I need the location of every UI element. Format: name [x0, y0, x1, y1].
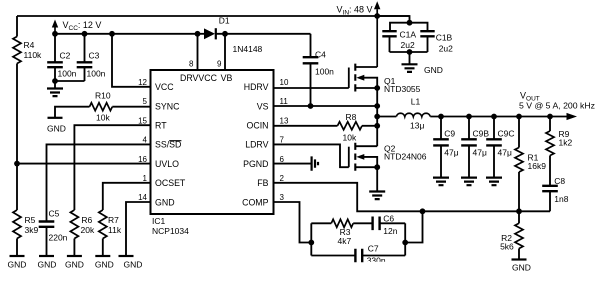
- svg-text:5: 5: [143, 97, 148, 106]
- ground T-bar under R5: [10, 255, 25, 257]
- svg-text:C5: C5: [49, 208, 60, 218]
- capacitor C8: [542, 186, 558, 191]
- svg-text:R10: R10: [95, 90, 111, 100]
- svg-text:16: 16: [138, 155, 147, 164]
- wire: SW to L1: [377, 116, 396, 118]
- node VS junction dot: [374, 103, 380, 109]
- node caps ground junction dot: [407, 49, 413, 55]
- svg-text:GND: GND: [8, 260, 27, 270]
- svg-text:100n: 100n: [87, 69, 106, 79]
- svg-text:2u2: 2u2: [439, 44, 453, 54]
- node OCIN junction dot: [374, 123, 380, 129]
- svg-text:14: 14: [138, 193, 147, 202]
- node C9C junction dot: [491, 114, 497, 120]
- svg-text:6: 6: [280, 155, 285, 164]
- node pin12 riser junction dot: [109, 31, 115, 37]
- wire: OCSET wire to R7: [103, 183, 151, 210]
- ground earth symbol under input caps: [402, 64, 418, 72]
- wire: VS wire: [274, 105, 378, 107]
- svg-text:47μ: 47μ: [444, 148, 458, 158]
- wire: VIN top rail from R4 top to C1A/C1B branch: [17, 15, 410, 17]
- svg-text:C9: C9: [444, 129, 455, 139]
- wire: left rail top segment: [16, 16, 18, 37]
- svg-text:GND: GND: [424, 65, 443, 75]
- capacitor C1A: [382, 31, 396, 36]
- wire: HDRV wire to Q1 gate: [274, 87, 349, 89]
- node D1 anode junction dot: [195, 31, 201, 37]
- node UVLO divider junction dot: [14, 161, 20, 167]
- wire: R5 bottom lead: [16, 239, 18, 257]
- svg-text:DRVVCC: DRVVCC: [180, 73, 218, 83]
- capacitor C4: [310, 34, 312, 57]
- svg-text:C3: C3: [89, 50, 100, 60]
- svg-text:OCSET: OCSET: [155, 178, 186, 188]
- diode D1 1N4148: [204, 28, 215, 39]
- svg-text:20k: 20k: [81, 225, 95, 235]
- node C4-VS junction dot: [308, 103, 314, 109]
- svg-text:PGND: PGND: [243, 159, 268, 169]
- resistor R5: [13, 210, 21, 239]
- ground earth symbol under C9: [433, 178, 449, 186]
- node C3 junction dot: [82, 31, 88, 37]
- wire: comp to FB link: [405, 211, 422, 242]
- svg-text:15: 15: [138, 116, 147, 125]
- op-amp U1: controller IC1 NCP1034 box with pin names and numbers: [151, 70, 274, 214]
- wire: C6 to right riser: [380, 222, 405, 224]
- svg-text:C6: C6: [383, 214, 394, 224]
- svg-text:1n8: 1n8: [554, 194, 568, 204]
- wire: D1 cathode wire to C4: [216, 33, 311, 35]
- wire: C2-C3 bottom join: [55, 80, 85, 82]
- svg-text:NTD3055: NTD3055: [384, 84, 421, 94]
- svg-text:47μ: 47μ: [473, 148, 487, 158]
- power VIN arrow (48 V input): [374, 1, 380, 16]
- svg-text:GND: GND: [47, 123, 66, 133]
- svg-text:13: 13: [280, 116, 289, 125]
- wire: R1 top lead: [518, 117, 520, 148]
- wire: pin 8 stub: [197, 34, 199, 70]
- svg-text:RT: RT: [155, 121, 167, 131]
- wire: UVLO wire to pin 16: [17, 163, 151, 165]
- wire: VOUT rail: [430, 116, 568, 118]
- wire: pin 9 stub: [224, 34, 226, 70]
- capacitor C5: [39, 222, 55, 227]
- node Q1 source junction dot: [374, 85, 380, 91]
- svg-text:10k: 10k: [343, 132, 357, 142]
- svg-text:GND: GND: [124, 260, 143, 270]
- node VIN junction dot: [374, 13, 380, 19]
- capacitor C1B: [420, 31, 434, 36]
- node comp right junction dot: [402, 240, 408, 246]
- svg-text:R4: R4: [24, 40, 35, 50]
- node C2 ground junction dot: [52, 78, 58, 84]
- wire: OCIN wire: [274, 125, 338, 127]
- ground earth symbol under C9C: [486, 178, 502, 186]
- wire: R7 bottom lead: [102, 239, 104, 257]
- svg-text:NCP1034: NCP1034: [152, 226, 189, 236]
- svg-text:D1: D1: [219, 16, 230, 26]
- svg-text:13μ: 13μ: [410, 121, 424, 131]
- wire: SYNC wire: [112, 106, 150, 108]
- svg-text:1: 1: [143, 174, 148, 183]
- node C9B junction dot: [466, 114, 472, 120]
- resistor R6: [70, 210, 78, 239]
- wire: R8 to SW node: [362, 125, 377, 127]
- resistor R1: [515, 148, 523, 172]
- wire: comp bottom branch left: [311, 255, 355, 257]
- svg-text:C1B: C1B: [436, 33, 453, 43]
- capacitor C9B: [468, 117, 470, 140]
- node C9 junction dot: [438, 114, 444, 120]
- svg-text:C7: C7: [368, 244, 379, 254]
- wire: VIN column down to Q1 drain: [376, 16, 378, 67]
- svg-text:47μ: 47μ: [498, 148, 512, 158]
- svg-text:12: 12: [138, 78, 147, 87]
- svg-text:100n: 100n: [315, 67, 334, 77]
- svg-text:C9B: C9B: [473, 129, 490, 139]
- wire: caps ground drop: [409, 52, 411, 64]
- wire: VCC rail to pin 12 VCC: [112, 34, 151, 87]
- ground T-bar under R6: [67, 255, 82, 257]
- transistor Q1 NTD3055: [348, 68, 350, 89]
- wire: R9 to C8: [549, 156, 551, 186]
- node input caps junction dot: [407, 20, 413, 26]
- svg-text:R5: R5: [25, 215, 36, 225]
- power VCC arrow (12 V supply): [52, 20, 58, 34]
- svg-text:GND: GND: [38, 260, 57, 270]
- wire: caps bottom join: [390, 51, 428, 53]
- svg-text:GND: GND: [512, 263, 531, 273]
- svg-text:4: 4: [143, 136, 148, 145]
- ground T-bar under R2: [512, 258, 527, 260]
- wire: caps top split: [390, 23, 428, 31]
- svg-text:COMP: COMP: [242, 197, 269, 207]
- svg-text:12n: 12n: [383, 226, 397, 236]
- svg-text:3k9: 3k9: [25, 225, 39, 235]
- svg-text:R7: R7: [108, 215, 119, 225]
- svg-text:4k7: 4k7: [338, 236, 352, 246]
- svg-text:C8: C8: [554, 176, 565, 186]
- wire: R10 left lead to ground: [55, 107, 90, 118]
- capacitor C7: [355, 249, 362, 263]
- ground earth symbol under Q2: [369, 192, 385, 200]
- svg-text:C4: C4: [315, 49, 326, 59]
- wire: R6 bottom lead: [73, 239, 75, 257]
- svg-text:IC1: IC1: [152, 216, 166, 226]
- svg-text:7: 7: [280, 136, 285, 145]
- wire: comp top branch left: [311, 222, 331, 224]
- wire: Q2 source to ground: [376, 167, 378, 191]
- wire: VCC rail: [55, 33, 198, 35]
- wire: C7 to right riser: [363, 255, 405, 257]
- svg-text:VS: VS: [257, 101, 269, 111]
- svg-text:SYNC: SYNC: [155, 101, 180, 111]
- wire: SS/SD wire to C5: [47, 144, 151, 221]
- svg-text:2: 2: [280, 174, 285, 183]
- svg-text:FB: FB: [257, 178, 268, 188]
- svg-text:HDRV: HDRV: [244, 82, 269, 92]
- svg-text:220n: 220n: [49, 233, 68, 243]
- inductor L1 13u: [396, 113, 430, 116]
- svg-text:C2: C2: [60, 50, 71, 60]
- node FB divider junction dot: [516, 208, 522, 214]
- ground T-bar under C5: [39, 255, 54, 257]
- svg-text:GND: GND: [155, 197, 175, 207]
- wire: RT wire to R6: [74, 125, 150, 210]
- wire: R3 to C6: [353, 222, 372, 224]
- resistor R3: [331, 219, 353, 227]
- node VB junction dot: [222, 31, 228, 37]
- ground earth symbol under C2: [54, 81, 56, 88]
- transistor Q2 NTD24N06: [348, 147, 350, 168]
- svg-text:GND: GND: [65, 260, 84, 270]
- svg-text:C1A: C1A: [400, 30, 417, 40]
- capacitor C3: [84, 34, 86, 63]
- node Q2 source junction dot: [374, 164, 380, 170]
- capacitor C9: [440, 117, 442, 140]
- wire: D1 anode wire: [198, 33, 205, 35]
- svg-text:9: 9: [217, 59, 222, 68]
- wire: comp network right riser: [404, 223, 406, 255]
- svg-text:3: 3: [280, 193, 285, 202]
- capacitor C9C: [493, 117, 495, 140]
- svg-text:C9C: C9C: [498, 129, 515, 139]
- node FB-comp junction dot: [420, 208, 426, 214]
- wire: R9 top lead: [549, 117, 551, 132]
- svg-text:16k9: 16k9: [528, 161, 547, 171]
- capacitor C6: [373, 217, 380, 231]
- wire: VIN to input caps branch: [377, 16, 409, 23]
- resistor R8: [338, 122, 363, 130]
- svg-text:100n: 100n: [58, 69, 77, 79]
- svg-text:OCIN: OCIN: [247, 121, 269, 131]
- svg-text:VB: VB: [221, 73, 233, 83]
- ground T-bar under R7: [95, 255, 110, 257]
- node R9 junction dot: [547, 114, 553, 120]
- node R1 junction dot: [516, 114, 522, 120]
- svg-text:UVLO: UVLO: [155, 159, 179, 169]
- wire: SW node column: [376, 88, 378, 146]
- wire: LDRV wire to Q2 gate: [274, 144, 349, 167]
- svg-text:LDRV: LDRV: [245, 140, 268, 150]
- svg-text:NTD24N06: NTD24N06: [384, 152, 427, 162]
- node L1 junction dot: [374, 114, 380, 120]
- resistor R9: [546, 131, 554, 155]
- wire: PGND wire: [274, 163, 312, 165]
- svg-text:110k: 110k: [24, 50, 43, 60]
- ground earth symbol under C9B: [461, 178, 477, 186]
- svg-text:VCC: VCC: [155, 82, 174, 92]
- svg-text:11: 11: [280, 97, 289, 106]
- capacitor C2: [54, 34, 56, 63]
- svg-text:8: 8: [189, 59, 194, 68]
- wire: FB wire from pin 2: [274, 183, 551, 212]
- label C7 value 330n (clipped): [367, 255, 386, 265]
- svg-text:5 V @ 5 A, 200 kHz: 5 V @ 5 A, 200 kHz: [519, 101, 595, 111]
- resistor R4: [13, 37, 21, 64]
- wire: R1 bottom lead to FB: [518, 172, 520, 211]
- wire: COMP wire from pin 3: [274, 202, 312, 243]
- svg-text:GND: GND: [95, 260, 114, 270]
- resistor R7: [99, 210, 107, 239]
- node VCC-C2 junction dot: [52, 31, 58, 37]
- wire: comp network left riser: [310, 223, 312, 255]
- svg-text:1N4148: 1N4148: [233, 44, 263, 54]
- svg-text:1k2: 1k2: [559, 138, 573, 148]
- ground T-bar at R10: [48, 117, 63, 119]
- svg-text:10: 10: [280, 78, 289, 87]
- svg-text:5k6: 5k6: [500, 241, 514, 251]
- wire: IC GND pin 14 to ground: [126, 202, 151, 256]
- svg-text:R6: R6: [81, 215, 92, 225]
- resistor R10: [90, 103, 113, 111]
- ground T-bar under pin 14: [119, 255, 134, 257]
- node comp left junction dot: [308, 240, 314, 246]
- svg-text:R8: R8: [346, 112, 357, 122]
- resistor R2: [518, 211, 520, 223]
- power VOUT arrow (right): [567, 113, 578, 120]
- svg-text:L1: L1: [411, 97, 421, 107]
- ground sideways symbol at PGND: [312, 156, 318, 170]
- svg-text:11k: 11k: [108, 225, 122, 235]
- svg-text:10k: 10k: [96, 112, 110, 122]
- wire: left rail middle segment: [16, 64, 18, 211]
- svg-text:2u2: 2u2: [401, 40, 415, 50]
